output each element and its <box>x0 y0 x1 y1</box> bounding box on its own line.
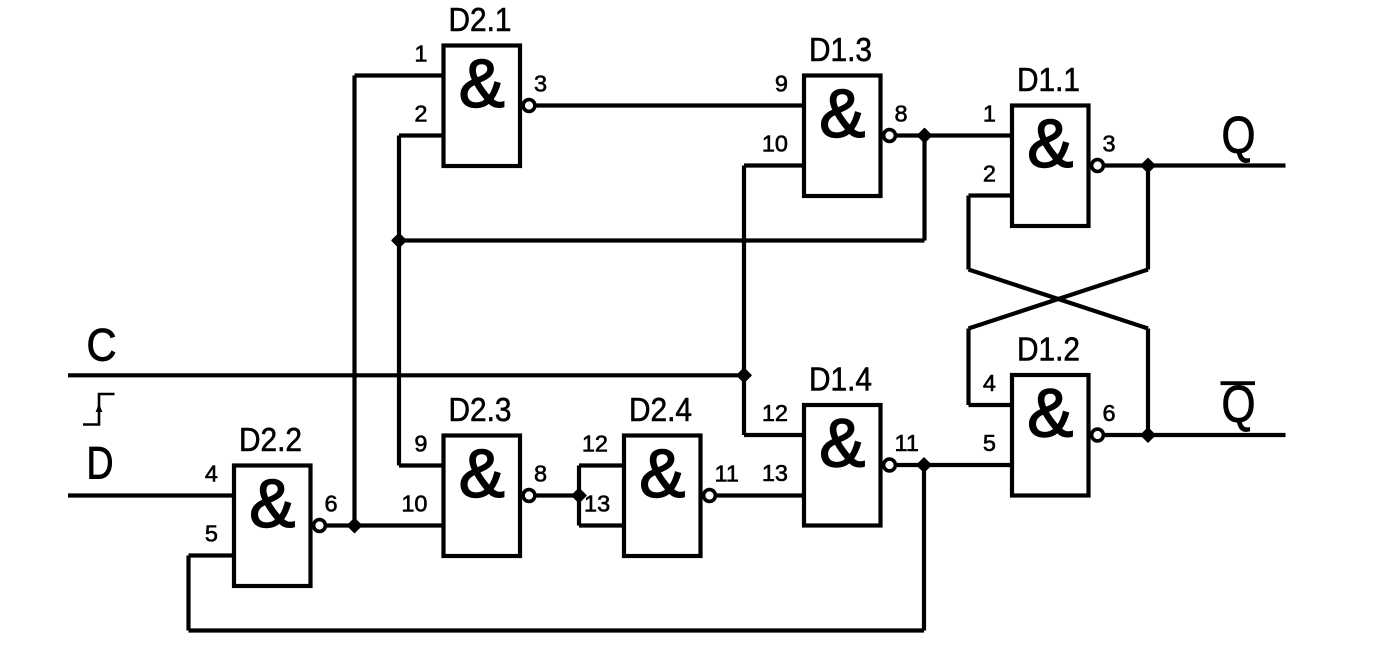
svg-text:10: 10 <box>401 491 427 517</box>
svg-text:8: 8 <box>895 101 908 127</box>
wire: D2.2 pin5 stub <box>189 553 235 557</box>
NAND gate D2.3 output inversion bubble <box>523 490 535 502</box>
svg-text:6: 6 <box>1103 400 1116 426</box>
junction: Qbar node <box>1141 428 1155 442</box>
NAND gate D2.2 output inversion bubble <box>314 520 326 532</box>
NAND gate D1.2 box <box>1012 375 1089 496</box>
svg-text:12: 12 <box>762 400 788 426</box>
wire: cross link D1.3 output to D2.1 pin2 <box>399 238 925 242</box>
NAND gate D1.4 box <box>804 405 881 526</box>
svg-text:1: 1 <box>414 41 427 67</box>
clock rising-edge symbol <box>83 394 115 425</box>
output label Q-bar <box>1221 376 1256 434</box>
wire: D1.1 output to Q node <box>1105 163 1148 167</box>
NAND gate D2.3 box <box>444 435 521 556</box>
svg-text:12: 12 <box>582 431 608 457</box>
svg-text:11: 11 <box>895 430 919 456</box>
wire: D2.3 pin9 stub <box>399 463 444 467</box>
wire: vertical D2.2 output to D2.1 pin1 <box>352 76 356 526</box>
svg-text:9: 9 <box>775 71 788 97</box>
svg-text:10: 10 <box>762 131 788 157</box>
svg-text:&: & <box>459 45 505 122</box>
svg-text:C: C <box>87 320 117 371</box>
junction: D2.2 output / D2.1 pin1 vertical <box>348 519 362 533</box>
wire: D1.1 pin2 stub <box>969 193 1013 197</box>
NAND gate D1.2 output inversion bubble <box>1092 429 1104 441</box>
wire: D1.3 output to D1.1 pin1 <box>897 133 1012 137</box>
svg-text:D1.3: D1.3 <box>809 31 872 68</box>
svg-text:D2.3: D2.3 <box>449 391 512 428</box>
wire: crossover diagonal Q to D1.2 side <box>969 270 1149 329</box>
wire: vertical crossover down to D1.2 pin4 <box>966 329 970 406</box>
svg-text:13: 13 <box>762 460 788 486</box>
svg-text:4: 4 <box>983 370 996 396</box>
junction: D1.4 output node <box>917 458 931 472</box>
wire: bottom feedback line <box>189 628 925 632</box>
svg-text:5: 5 <box>205 521 218 547</box>
NAND gate D1.1 box <box>1012 105 1089 226</box>
wire: vertical C to D1.3 pin10 / D1.4 pin12 <box>742 166 746 436</box>
wire: Q output line <box>1148 163 1286 167</box>
svg-text:3: 3 <box>534 71 547 97</box>
wire: D2.1 output to D1.3 pin9 <box>536 103 804 107</box>
wire: D1.2 pin4 stub <box>969 403 1013 407</box>
svg-text:3: 3 <box>1103 131 1116 157</box>
NAND gate D1.1 output inversion bubble <box>1092 160 1104 172</box>
svg-text:D1.4: D1.4 <box>809 361 872 398</box>
svg-text:D2.1: D2.1 <box>449 1 512 38</box>
wire: Qbar output line <box>1148 433 1286 437</box>
svg-text:&: & <box>1027 105 1073 182</box>
svg-text:1: 1 <box>983 101 996 127</box>
svg-text:&: & <box>819 75 865 152</box>
wire: D2.1 pin1 stub <box>355 73 444 77</box>
svg-text:2: 2 <box>983 161 996 187</box>
NAND gate D2.4 box <box>624 435 701 556</box>
svg-text:2: 2 <box>414 101 427 127</box>
wire: vertical Q node down to crossover <box>1146 166 1150 270</box>
wire: D2.4 tied inputs vertical <box>577 466 581 526</box>
NAND gate D2.1 output inversion bubble <box>523 100 535 112</box>
wire: D1.4 output to D1.2 pin5 <box>897 463 1012 467</box>
wire: D2.3 output stub <box>536 493 579 497</box>
NAND gate D2.2 box <box>234 465 311 586</box>
wire: vertical D2.1 pin2 to D2.3 pin9 <box>397 136 401 466</box>
NAND gate D1.4 output inversion bubble <box>884 459 896 471</box>
svg-text:6: 6 <box>325 491 338 517</box>
svg-text:&: & <box>459 435 505 512</box>
wire: D2.4 pin12 stub <box>579 463 624 467</box>
wire: vertical crossover down to Qbar node <box>1146 329 1150 436</box>
NAND gate D1.3 box <box>804 75 881 196</box>
wire: vertical D1.1 pin2 down to crossover <box>966 196 970 270</box>
wire: D1.3 pin10 stub <box>744 163 804 167</box>
NAND gate D2.1 box <box>444 45 521 166</box>
wire: D input line <box>68 493 234 497</box>
wire: vertical from D1.3 output junction <box>922 136 926 241</box>
wire: D1.2 output to Qbar node <box>1105 433 1148 437</box>
svg-text:D1.1: D1.1 <box>1017 61 1080 98</box>
svg-text:4: 4 <box>205 461 218 487</box>
junction: D2.3 output / D2.4 inputs <box>572 489 586 503</box>
wire: crossover diagonal Qbar to D1.1 side <box>969 270 1149 329</box>
wire: vertical D1.4 output down to feedback <box>922 465 926 631</box>
wire: D2.4 output to D1.4 pin13 <box>717 493 804 497</box>
svg-text:Q: Q <box>1222 107 1256 165</box>
NAND gate D2.4 output inversion bubble <box>704 490 716 502</box>
junction: Q node <box>1141 159 1155 173</box>
svg-text:11: 11 <box>715 461 739 487</box>
junction: D2.1 pin2 / cross link <box>392 234 406 248</box>
svg-text:5: 5 <box>983 430 996 456</box>
wire: D2.2 output to D2.3 pin10 <box>327 523 444 527</box>
svg-text:D1.2: D1.2 <box>1017 331 1080 368</box>
wire: D1.4 pin12 stub <box>744 433 804 437</box>
svg-text:D: D <box>87 438 114 489</box>
wire: C input line <box>68 373 744 377</box>
svg-text:&: & <box>249 465 295 542</box>
svg-text:13: 13 <box>584 491 610 517</box>
wire: vertical feedback up to D2.2 pin5 <box>186 556 190 631</box>
svg-text:D2.4: D2.4 <box>629 391 692 428</box>
svg-text:9: 9 <box>414 431 427 457</box>
svg-text:&: & <box>819 405 865 482</box>
wire: D2.1 pin2 stub <box>399 133 444 137</box>
svg-text:8: 8 <box>534 461 547 487</box>
svg-text:&: & <box>1027 375 1073 452</box>
svg-text:&: & <box>639 435 685 512</box>
NAND gate D1.3 output inversion bubble <box>884 130 896 142</box>
junction: C line / clock vertical <box>737 368 751 382</box>
svg-text:D2.2: D2.2 <box>239 421 302 458</box>
junction: D1.3 output node <box>918 129 932 143</box>
wire: D2.4 pin13 stub <box>579 523 624 527</box>
